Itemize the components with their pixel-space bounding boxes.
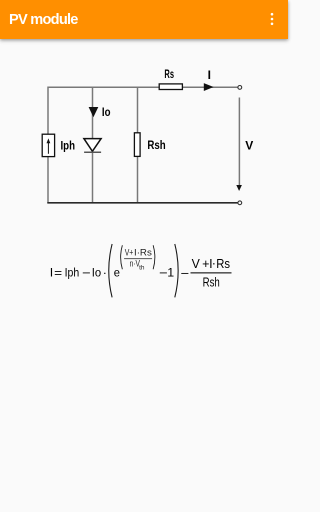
- svg-text:V: V: [192, 257, 201, 271]
- svg-text:=: =: [54, 266, 62, 280]
- svg-text:−: −: [82, 266, 91, 280]
- svg-text:Rsh: Rsh: [203, 276, 220, 290]
- svg-text:Iph: Iph: [61, 138, 76, 152]
- svg-text:Rs: Rs: [216, 257, 230, 271]
- svg-text:I·Rs: I·Rs: [134, 248, 152, 259]
- svg-text:th: th: [139, 264, 145, 271]
- svg-text:1: 1: [167, 265, 174, 279]
- svg-text:·: ·: [103, 265, 107, 279]
- svg-text:Io: Io: [102, 105, 111, 119]
- svg-text:e: e: [114, 265, 120, 279]
- svg-text:V+: V+: [125, 248, 134, 259]
- svg-text:I: I: [50, 265, 53, 279]
- svg-text:−: −: [181, 266, 190, 280]
- svg-text:Io: Io: [92, 265, 101, 279]
- svg-text:Rsh: Rsh: [147, 138, 165, 152]
- svg-text:Iph: Iph: [65, 265, 80, 279]
- svg-text:Rs: Rs: [164, 67, 174, 81]
- svg-text:I: I: [208, 68, 211, 82]
- svg-text:V: V: [245, 138, 253, 152]
